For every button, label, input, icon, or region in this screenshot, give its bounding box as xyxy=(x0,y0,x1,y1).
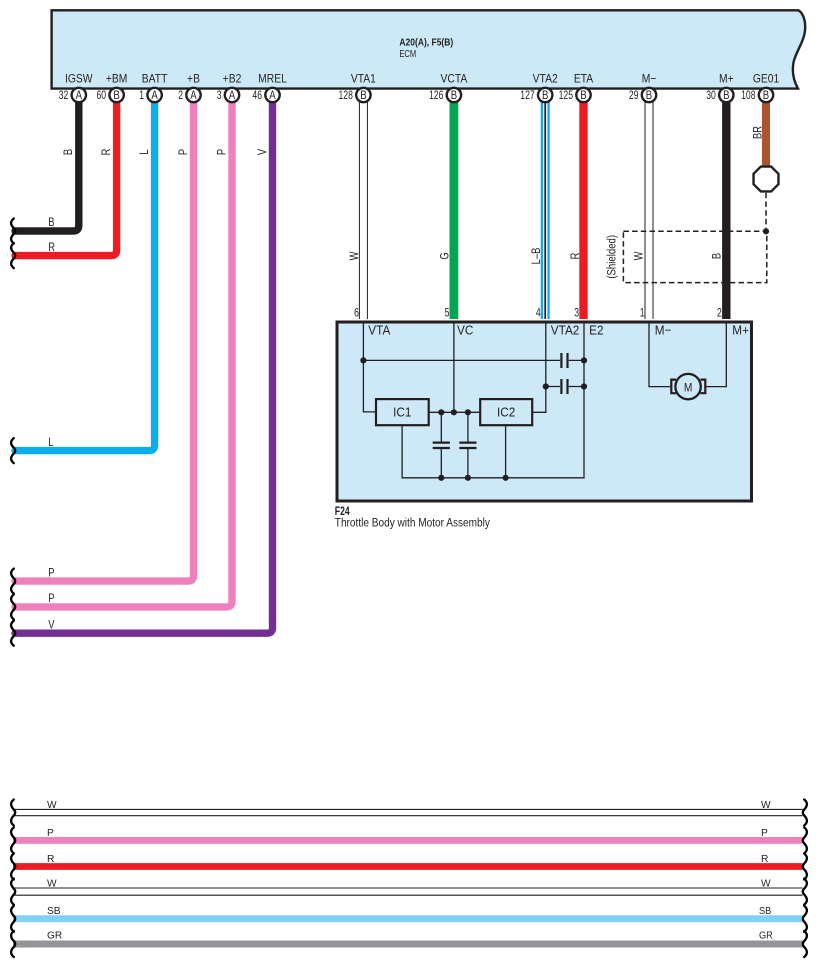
svg-text:(Shielded): (Shielded) xyxy=(606,235,619,279)
svg-text:ETA: ETA xyxy=(574,73,594,86)
svg-text:W: W xyxy=(761,800,771,811)
svg-text:2: 2 xyxy=(178,90,183,103)
junction dot bus cap B xyxy=(465,475,471,481)
inner wire VTA vertical xyxy=(363,323,376,412)
wire W M- white double line xyxy=(645,96,654,319)
capacitor B plates xyxy=(459,443,476,448)
svg-text:L: L xyxy=(48,436,53,449)
svg-text:B: B xyxy=(113,89,119,102)
svg-text:+B2: +B2 xyxy=(223,73,242,86)
wire P from +B2 xyxy=(15,96,232,607)
svg-text:M+: M+ xyxy=(719,73,734,86)
pin 127 (B) VTA2 xyxy=(520,88,552,102)
wire B from IGSW xyxy=(15,96,79,231)
svg-text:E2: E2 xyxy=(589,323,604,338)
bottom wire SB squiggle left xyxy=(11,906,15,932)
svg-text:108: 108 xyxy=(741,90,756,103)
svg-text:R: R xyxy=(48,241,55,254)
bottom wire W 1 white double line xyxy=(13,809,803,815)
svg-text:SB: SB xyxy=(47,906,61,917)
junction dot bus cap A xyxy=(438,475,444,481)
svg-text:126: 126 xyxy=(429,90,444,103)
svg-text:1: 1 xyxy=(640,307,645,320)
svg-text:B: B xyxy=(763,89,769,102)
svg-text:B: B xyxy=(723,89,729,102)
svg-text:5: 5 xyxy=(445,307,450,320)
svg-text:VCTA: VCTA xyxy=(441,73,468,86)
svg-text:ECM: ECM xyxy=(399,48,416,59)
pin 29 (B) M- xyxy=(629,88,656,102)
wire BR GE01 xyxy=(762,96,770,167)
svg-text:BATT: BATT xyxy=(142,73,168,86)
junction dot E2/cap row2 xyxy=(581,383,587,389)
capacitor A plates xyxy=(433,443,450,448)
svg-text:V: V xyxy=(48,618,55,631)
svg-text:R: R xyxy=(569,252,582,259)
wire P from +B xyxy=(15,96,194,581)
motor M xyxy=(675,374,700,399)
torn end squiggle P xyxy=(11,569,15,594)
svg-text:A: A xyxy=(269,89,276,102)
svg-text:GR: GR xyxy=(47,931,62,942)
junction dot VTA2/cap row2 xyxy=(543,383,549,389)
wire V from MREL xyxy=(15,96,273,633)
capacitor C-top plates xyxy=(561,353,567,368)
capacitor B leads xyxy=(467,412,469,478)
svg-text:W: W xyxy=(761,879,771,890)
shield junction dot xyxy=(763,228,769,234)
svg-text:B: B xyxy=(360,89,366,102)
svg-text:VTA1: VTA1 xyxy=(351,73,376,86)
svg-text:Throttle Body with Motor Assem: Throttle Body with Motor Assembly xyxy=(335,517,491,530)
svg-text:SB: SB xyxy=(759,905,771,917)
pin 60 (B) +BM xyxy=(96,88,123,102)
motor brush left xyxy=(671,380,676,394)
pin 1 (A) BATT xyxy=(139,88,162,102)
torn end squiggle R xyxy=(11,243,15,268)
svg-text:M−: M− xyxy=(642,73,657,86)
svg-text:W: W xyxy=(632,251,645,261)
IC1 box xyxy=(376,399,429,425)
svg-text:A: A xyxy=(190,89,197,102)
pin 46 (A) MREL xyxy=(252,88,279,102)
pin 125 (B) ETA xyxy=(559,88,591,102)
bottom wire W1 squiggle left xyxy=(11,800,15,826)
svg-text:32: 32 xyxy=(59,90,69,103)
bottom wire SB sky blue xyxy=(13,915,803,922)
bottom wire R squiggle right xyxy=(803,854,807,880)
svg-text:B: B xyxy=(62,149,75,155)
svg-text:M: M xyxy=(684,382,693,395)
svg-text:VTA: VTA xyxy=(368,323,391,338)
svg-text:60: 60 xyxy=(96,90,106,103)
svg-text:L–B: L–B xyxy=(530,248,543,265)
svg-text:P: P xyxy=(48,566,54,579)
svg-text:W: W xyxy=(47,800,57,811)
inner wire M+ xyxy=(706,323,726,387)
svg-text:VTA2: VTA2 xyxy=(533,73,558,86)
inner wire E2 vertical xyxy=(402,323,584,478)
svg-text:46: 46 xyxy=(252,90,262,103)
junction dot bus IC2 xyxy=(503,475,509,481)
pin 30 (B) M+ xyxy=(706,88,733,102)
bottom wire W2 squiggle right xyxy=(803,879,807,905)
svg-text:MREL: MREL xyxy=(258,73,287,86)
wire R ETA xyxy=(579,96,587,319)
torn end squiggle B xyxy=(11,219,15,244)
junction dot mid line VC xyxy=(451,409,457,415)
svg-text:R: R xyxy=(761,854,768,865)
bottom wire R red xyxy=(13,863,803,870)
svg-text:+B: +B xyxy=(187,73,200,86)
svg-text:R: R xyxy=(100,148,113,155)
wire B M+ xyxy=(722,96,730,319)
svg-text:VC: VC xyxy=(457,323,473,338)
svg-text:GR: GR xyxy=(759,930,773,942)
svg-text:W: W xyxy=(348,251,361,261)
inner wire IC1-IC2 mid line xyxy=(429,411,481,413)
bottom wire W1 squiggle right xyxy=(803,800,807,826)
bottom wire P squiggle left xyxy=(11,827,15,853)
svg-text:A: A xyxy=(76,89,83,102)
svg-text:G: G xyxy=(438,252,451,259)
svg-text:M+: M+ xyxy=(732,323,749,338)
svg-text:P: P xyxy=(48,592,54,605)
pin 2 (A) +B xyxy=(178,88,201,102)
wire R from +BM xyxy=(15,96,117,256)
dashed shield drain wire xyxy=(765,193,767,232)
bottom wire SB squiggle right xyxy=(803,906,807,932)
bottom wire W 2 white double line xyxy=(13,888,803,895)
svg-text:BR: BR xyxy=(751,126,764,139)
pin 108 (B) GE01 xyxy=(741,88,773,102)
svg-text:A: A xyxy=(151,89,158,102)
bottom wire GR gray xyxy=(13,941,803,948)
junction dot mid line cap B xyxy=(465,409,471,415)
pin 32 (A) IGSW xyxy=(59,88,86,102)
svg-text:P: P xyxy=(47,828,54,839)
junction dot mid line cap A xyxy=(438,409,444,415)
svg-text:128: 128 xyxy=(339,90,354,103)
wire L-B VTA2 xyxy=(541,96,550,319)
bottom wire P pink xyxy=(13,837,803,844)
IC2 bottom lead xyxy=(505,425,507,478)
svg-text:VTA2: VTA2 xyxy=(551,323,580,338)
svg-text:+BM: +BM xyxy=(106,73,128,86)
svg-text:B: B xyxy=(451,89,457,102)
wire L from BATT xyxy=(15,96,155,451)
inner wire M- xyxy=(649,323,670,387)
pin 126 (B) VCTA xyxy=(429,88,461,102)
svg-text:B: B xyxy=(48,216,54,229)
shielded dashed box xyxy=(623,231,766,282)
svg-text:IC1: IC1 xyxy=(393,405,411,420)
svg-text:3: 3 xyxy=(574,307,579,320)
svg-text:GE01: GE01 xyxy=(753,73,779,86)
svg-text:V: V xyxy=(256,148,269,155)
svg-text:A: A xyxy=(229,89,236,102)
svg-text:IC2: IC2 xyxy=(497,405,515,420)
svg-text:127: 127 xyxy=(520,90,535,103)
svg-text:29: 29 xyxy=(629,90,639,103)
junction dot VTA/cap row xyxy=(360,357,366,363)
capacitor A leads xyxy=(440,412,442,478)
junction dot E2/cap row1 xyxy=(581,357,587,363)
svg-text:B: B xyxy=(542,89,548,102)
svg-text:B: B xyxy=(710,253,723,259)
pin 3 (A) +B2 xyxy=(217,88,240,102)
torn end squiggle L xyxy=(11,438,15,463)
torn end squiggle V xyxy=(11,621,15,646)
svg-text:IGSW: IGSW xyxy=(65,73,93,86)
IC2 box xyxy=(480,399,532,425)
ECM box A20(A), F5(B) xyxy=(52,10,806,88)
svg-text:R: R xyxy=(47,854,54,865)
svg-text:P: P xyxy=(177,149,190,155)
svg-text:B: B xyxy=(646,89,652,102)
svg-text:M−: M− xyxy=(655,323,672,338)
throttle body box F24 xyxy=(337,322,752,501)
svg-text:3: 3 xyxy=(217,90,222,103)
svg-text:6: 6 xyxy=(354,307,359,320)
bottom wire W2 squiggle left xyxy=(11,879,15,905)
bottom wire GR squiggle left xyxy=(11,931,15,957)
inner wire top capacitor row xyxy=(363,359,584,361)
capacitor C2 plates xyxy=(561,379,567,394)
inner wire VC vertical xyxy=(453,323,455,412)
svg-text:W: W xyxy=(47,879,57,890)
svg-text:1: 1 xyxy=(139,90,144,103)
svg-text:30: 30 xyxy=(706,90,716,103)
svg-text:4: 4 xyxy=(536,307,541,320)
svg-text:P: P xyxy=(215,149,228,155)
svg-text:2: 2 xyxy=(717,307,722,320)
svg-text:B: B xyxy=(580,89,586,102)
inner wire VTA2 vertical xyxy=(532,323,546,412)
svg-text:L: L xyxy=(138,149,151,154)
svg-text:125: 125 xyxy=(559,90,574,103)
svg-text:P: P xyxy=(761,828,768,839)
bottom wire GR squiggle right xyxy=(803,931,807,957)
motor brush right xyxy=(700,380,705,394)
torn end squiggle P2 xyxy=(11,594,15,619)
bottom wire R squiggle left xyxy=(11,854,15,880)
wire G VCTA xyxy=(449,96,458,319)
pin 128 (B) VTA1 xyxy=(339,88,371,102)
wire W VTA1 white double line xyxy=(359,96,368,319)
inner wire cap row 2 xyxy=(546,386,584,388)
bottom wire P squiggle right xyxy=(803,827,807,853)
shield ground octagon xyxy=(754,167,779,192)
